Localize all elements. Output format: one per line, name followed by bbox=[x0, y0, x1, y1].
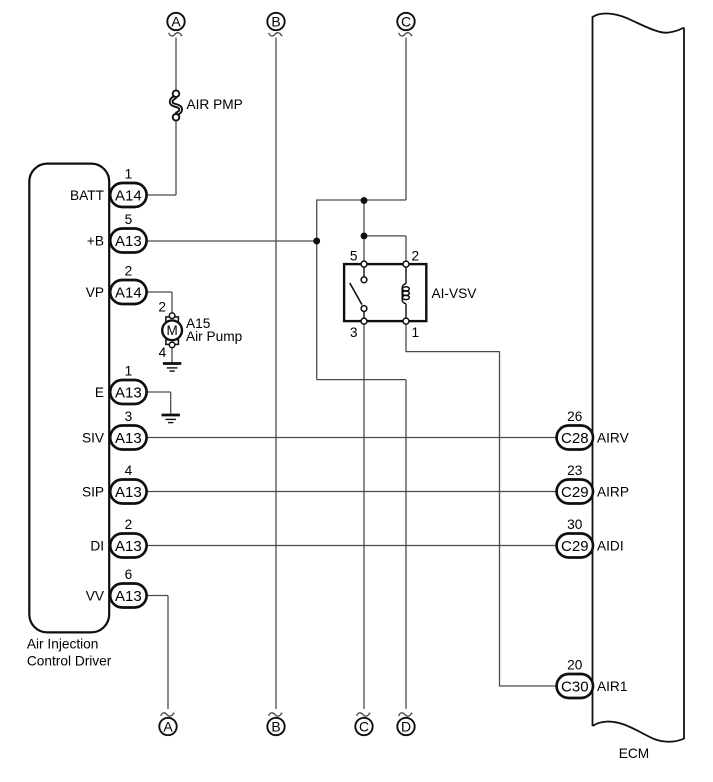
svg-text:Control Driver: Control Driver bbox=[27, 654, 112, 669]
svg-text:A14: A14 bbox=[115, 284, 142, 301]
svg-text:1: 1 bbox=[125, 167, 133, 182]
svg-text:26: 26 bbox=[567, 409, 583, 424]
svg-text:23: 23 bbox=[567, 463, 583, 478]
svg-text:3: 3 bbox=[350, 325, 358, 340]
svg-text:E: E bbox=[95, 385, 104, 400]
svg-text:ECM: ECM bbox=[619, 746, 649, 761]
svg-text:3: 3 bbox=[125, 409, 133, 424]
svg-text:C: C bbox=[401, 14, 411, 30]
svg-text:A14: A14 bbox=[115, 187, 142, 204]
svg-text:C: C bbox=[359, 719, 369, 735]
svg-text:C28: C28 bbox=[561, 430, 589, 447]
svg-text:Air Pump: Air Pump bbox=[186, 329, 243, 344]
svg-text:A: A bbox=[171, 14, 181, 30]
svg-text:A13: A13 bbox=[115, 384, 142, 401]
svg-text:DI: DI bbox=[90, 538, 104, 553]
svg-text:30: 30 bbox=[567, 517, 583, 532]
svg-text:A13: A13 bbox=[115, 538, 142, 555]
svg-text:A13: A13 bbox=[115, 588, 142, 605]
svg-text:1: 1 bbox=[125, 364, 133, 379]
svg-text:2: 2 bbox=[158, 300, 166, 315]
svg-text:4: 4 bbox=[159, 345, 167, 360]
svg-text:C29: C29 bbox=[561, 484, 589, 501]
svg-text:6: 6 bbox=[125, 567, 133, 582]
svg-text:+B: +B bbox=[87, 233, 104, 248]
svg-text:1: 1 bbox=[412, 325, 420, 340]
svg-text:A13: A13 bbox=[115, 233, 142, 250]
svg-text:AIR1: AIR1 bbox=[597, 679, 627, 694]
svg-text:BATT: BATT bbox=[70, 188, 105, 203]
svg-text:AIR PMP: AIR PMP bbox=[187, 97, 243, 112]
svg-text:2: 2 bbox=[125, 264, 133, 279]
svg-text:VP: VP bbox=[86, 285, 104, 300]
svg-text:2: 2 bbox=[412, 249, 420, 264]
svg-text:Air Injection: Air Injection bbox=[27, 637, 99, 652]
svg-text:C29: C29 bbox=[561, 538, 589, 555]
svg-text:SIV: SIV bbox=[82, 430, 105, 445]
svg-text:A: A bbox=[163, 719, 173, 735]
svg-text:AIRP: AIRP bbox=[597, 484, 629, 499]
svg-text:VV: VV bbox=[86, 588, 105, 603]
svg-text:AI-VSV: AI-VSV bbox=[432, 286, 478, 301]
svg-text:A13: A13 bbox=[115, 484, 142, 501]
svg-text:B: B bbox=[271, 14, 280, 30]
svg-text:SIP: SIP bbox=[82, 484, 104, 499]
svg-text:A13: A13 bbox=[115, 430, 142, 447]
svg-text:AIDI: AIDI bbox=[597, 538, 624, 553]
svg-text:AIRV: AIRV bbox=[597, 430, 630, 445]
svg-text:5: 5 bbox=[350, 249, 358, 264]
svg-text:M: M bbox=[166, 323, 177, 338]
svg-text:B: B bbox=[271, 719, 280, 735]
svg-text:20: 20 bbox=[567, 658, 583, 673]
svg-text:2: 2 bbox=[125, 517, 133, 532]
svg-text:5: 5 bbox=[125, 212, 133, 227]
svg-text:C30: C30 bbox=[561, 678, 589, 695]
svg-text:D: D bbox=[401, 719, 411, 735]
svg-text:4: 4 bbox=[125, 463, 133, 478]
